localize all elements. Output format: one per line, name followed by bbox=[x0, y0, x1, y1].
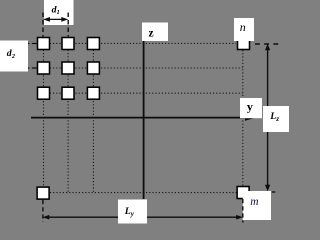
dotted grid line col 2 bbox=[67, 37, 69, 193]
dotted line n to m bbox=[242, 50, 244, 186]
dashed extension below bottom-left square bbox=[42, 200, 44, 222]
grid square r1c1 bbox=[38, 38, 50, 50]
svg-text:z: z bbox=[149, 27, 154, 39]
label box d1 bbox=[44, 0, 74, 25]
dimension line Lz bbox=[267, 48, 269, 188]
dashed extension right of Lz bottom arrow bbox=[272, 191, 278, 193]
svg-text:n: n bbox=[240, 20, 246, 34]
d1 dashed vertical right bbox=[67, 13, 69, 37]
grid square r1c2 bbox=[62, 38, 74, 50]
axis y horizontal line bbox=[31, 117, 250, 119]
dimension arrow d1 bbox=[46, 18, 65, 20]
svg-text:m: m bbox=[250, 196, 258, 208]
grid square r3c2 bbox=[62, 87, 74, 99]
marker square m bbox=[237, 187, 249, 199]
dashed extension right of n bbox=[255, 43, 279, 45]
grid square r2c3 bbox=[87, 62, 99, 74]
dotted grid line row 2 bbox=[37, 67, 242, 69]
dotted grid line col 1 bbox=[43, 37, 45, 187]
grid square r2c2 bbox=[62, 62, 74, 74]
label box Ly bbox=[118, 200, 147, 224]
dotted grid line row 3 bbox=[37, 92, 242, 94]
label box z bbox=[142, 23, 168, 42]
grid square r3c1 bbox=[38, 87, 50, 99]
d1 arrowhead right bbox=[61, 17, 68, 22]
Ly arrowhead left bbox=[43, 215, 50, 220]
grid square r2c1 bbox=[38, 62, 50, 74]
marker square n bbox=[238, 38, 250, 50]
dimension line Ly bbox=[47, 216, 239, 218]
dotted grid line col 3 bbox=[92, 37, 94, 193]
label box Lz bbox=[263, 106, 289, 132]
Lz arrowhead up bbox=[265, 44, 270, 51]
d1 dashed vertical left bbox=[42, 13, 44, 37]
grid square r1c3 bbox=[87, 38, 99, 50]
d2 dashed leader row2 bbox=[28, 67, 37, 69]
axis y arrowhead bbox=[245, 115, 256, 121]
dashed extension below m square bbox=[242, 199, 244, 223]
label box d2 bbox=[0, 41, 28, 72]
Ly arrowhead right bbox=[236, 215, 243, 220]
Lz arrowhead down bbox=[265, 185, 270, 192]
grid square r3c3 bbox=[87, 87, 99, 99]
label box y bbox=[240, 98, 262, 118]
d2 dashed leader row1 bbox=[28, 43, 37, 45]
d1 arrowhead left bbox=[43, 17, 50, 22]
label box n bbox=[234, 18, 254, 41]
label box m bbox=[243, 191, 271, 220]
dotted bottom line square to m bbox=[50, 192, 237, 194]
svg-text:y: y bbox=[247, 99, 253, 113]
axis z vertical line bbox=[143, 41, 145, 199]
marker square bottom-left bbox=[37, 187, 49, 199]
dotted grid line row 1 bbox=[37, 42, 236, 44]
